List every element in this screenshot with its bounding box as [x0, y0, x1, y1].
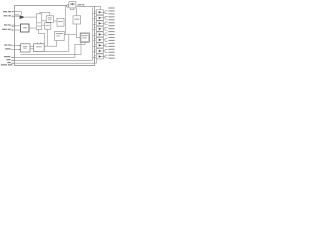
wire VDD rail — [11, 59, 92, 61]
oscillator box — [69, 2, 76, 8]
pin label CD1 — [108, 58, 114, 59]
pin label DIN — [4, 44, 7, 45]
chip boundary top edge — [15, 5, 67, 7]
pin label AD7 — [108, 28, 114, 29]
pin label BD1 — [108, 34, 114, 35]
op-amp oscillator amplifier — [20, 15, 25, 19]
block timing — [73, 16, 81, 24]
pin label BD3 — [108, 40, 114, 41]
wire top edge into first port cell — [95, 6, 101, 10]
caption output data — [1, 64, 7, 65]
wire shift reg to clock branch — [44, 35, 69, 52]
pin label VDD — [6, 59, 10, 60]
block output latch (double border) — [80, 33, 89, 42]
pin label BD6 — [108, 49, 114, 50]
wire VSS rail — [11, 59, 96, 63]
pin label BD2 — [108, 37, 114, 38]
chip boundary bottom edge — [15, 65, 95, 67]
wire timing to output latch — [76, 24, 80, 38]
wire RST — [11, 25, 21, 27]
wire shift reg to control — [44, 41, 56, 47]
port driver cell 2 — [93, 15, 108, 20]
block clock generator — [46, 16, 53, 22]
block control logic — [55, 31, 65, 40]
wire ENABLE — [11, 45, 85, 58]
port driver cell 3 — [93, 21, 108, 26]
port driver cell 8 — [93, 48, 108, 53]
wire main clock vertical — [65, 6, 67, 35]
pin label BD5 — [108, 46, 114, 47]
arrowhead DIN — [19, 45, 21, 46]
port driver cell 5 — [93, 32, 108, 37]
pin label XTAL1 — [4, 15, 8, 16]
crystal symbol — [71, 3, 73, 5]
arrowhead VDD — [13, 60, 15, 61]
shift register top stubs — [38, 42, 41, 44]
pin label VSS — [7, 62, 10, 63]
wire CLKIN — [11, 49, 21, 51]
port driver cell 4 — [93, 26, 108, 31]
output latch bottom stubs — [81, 42, 85, 54]
wire osc to timing — [75, 8, 77, 16]
port driver cell 1 — [93, 10, 108, 15]
pin label BD7 — [108, 52, 114, 53]
arrowhead CTRL — [12, 29, 14, 30]
wire DIN — [11, 45, 21, 47]
arrowhead XTAL1 — [13, 16, 15, 17]
block power-on-reset (dark border) — [21, 24, 30, 32]
wire POR to prescaler — [29, 27, 36, 29]
block divider — [57, 18, 64, 26]
wire baud gen down — [47, 29, 49, 46]
osc amp label — [15, 14, 19, 15]
port driver cell 7 — [93, 43, 108, 48]
oscillator caption — [77, 4, 81, 5]
pin label AD4 — [108, 19, 114, 20]
wires input buffer to shift reg — [30, 46, 34, 49]
block shift register — [34, 44, 45, 52]
chip boundary left edge — [14, 6, 16, 66]
block prescaler (tall) — [36, 14, 42, 30]
wire CTRL — [11, 29, 21, 31]
arrowhead VSS — [13, 63, 15, 64]
inverter bubble RST — [12, 25, 14, 27]
wire control to timing junction — [64, 34, 76, 36]
arrowhead ENABLE — [13, 57, 15, 58]
arrowhead CLKIN — [19, 49, 21, 50]
pin label CD0 — [108, 55, 114, 56]
pin label AD0 — [108, 7, 114, 8]
wire latch write bus — [21, 54, 82, 56]
pin label ENABLE — [4, 56, 10, 57]
block baud generator — [44, 23, 50, 29]
pin label AD6 — [108, 25, 114, 26]
pin label AD3 — [108, 16, 114, 17]
internal bus vertical — [92, 8, 94, 61]
wire prescaler to clock gen — [42, 21, 46, 26]
wire XTAL1 to osc amp — [12, 15, 20, 17]
pin label CLKIN — [5, 48, 10, 49]
pin label XTAL2 — [3, 11, 7, 12]
pin label BD4 — [108, 43, 114, 44]
oscillator pin circle — [66, 5, 68, 7]
block input buffer — [21, 44, 31, 52]
chip boundary right edge — [94, 6, 96, 65]
wire top clock rail — [40, 13, 50, 16]
chip boundary top edge right segment — [76, 5, 94, 7]
port driver cell 6 — [93, 37, 108, 42]
pin label BD0 — [108, 31, 114, 32]
wire prescaler elbow down — [39, 30, 45, 44]
wire osc amp output — [25, 16, 36, 18]
pin label AD2 — [108, 13, 114, 14]
pin label AD1 — [108, 10, 114, 11]
pin label RST — [4, 24, 7, 25]
arrowhead XTAL2 — [13, 11, 15, 12]
port driver cell 9 — [93, 54, 108, 59]
pin label CTRL — [2, 29, 7, 30]
wire clock gen to divider — [54, 20, 57, 22]
pin label AD5 — [108, 22, 114, 23]
oscillator pin stubs — [70, 8, 75, 9]
wire XTAL2 feedback — [12, 12, 22, 15]
